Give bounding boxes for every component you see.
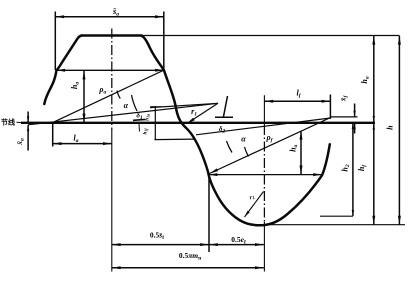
svg-text:0.5ef: 0.5ef	[231, 235, 246, 246]
svg-text:α: α	[124, 101, 129, 110]
svg-text:α: α	[241, 135, 246, 144]
svg-text:0.5s̄f: 0.5s̄f	[150, 231, 164, 242]
svg-text:0.5πmn: 0.5πmn	[179, 251, 201, 262]
svg-text:h1a: h1a	[145, 114, 150, 121]
svg-text:h1f: h1f	[143, 128, 148, 135]
svg-text:h: h	[386, 125, 395, 130]
svg-text:节线: 节线	[1, 118, 15, 127]
